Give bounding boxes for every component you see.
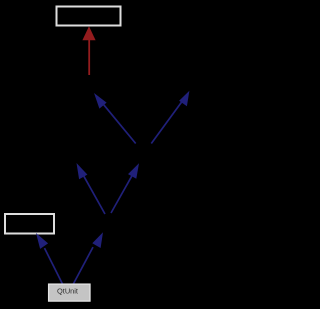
arrow E (blue) from QtUnit to left box [36,233,63,284]
node box (top base class, black text invisible) [57,7,121,26]
node box (left base class of QtUnit, black text invisible) [5,214,54,234]
arrow (red, protected inheritance) to top box [82,26,95,75]
arrow A (blue) up-left to hidden rank2-left node [94,93,136,144]
arrow F (blue) from QtUnit to hidden rank4 node [73,232,103,284]
node QtUnit (current class, gray filled) [49,284,90,301]
arrow D (blue) up-right to hidden rank3-right node [111,163,139,213]
arrow B (blue) up-right to hidden rank2-right node [151,91,189,144]
arrow C (blue) up-left to hidden rank3-left node [77,163,106,214]
svg-text:QtUnit: QtUnit [57,287,78,296]
